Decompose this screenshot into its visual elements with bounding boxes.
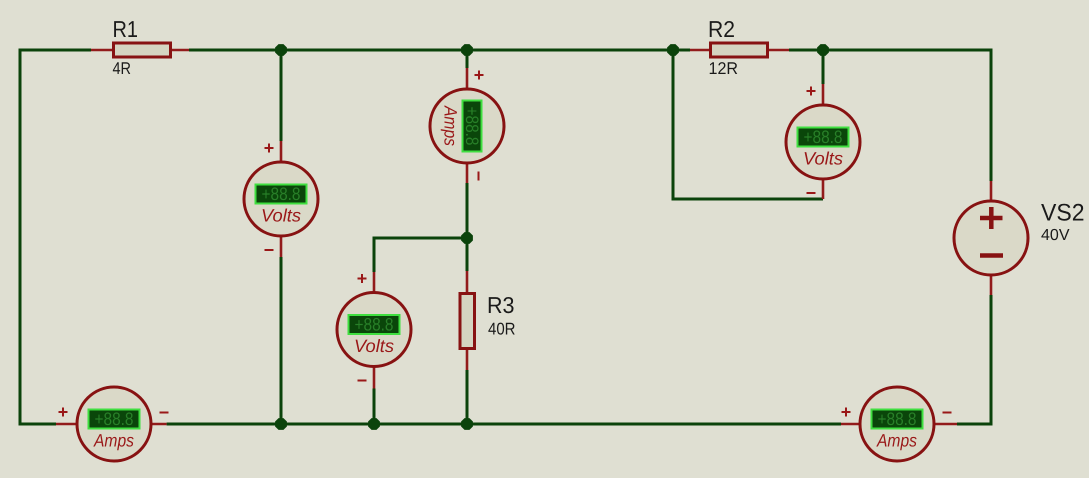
svg-text:R3: R3: [487, 292, 515, 318]
svg-text:Volts: Volts: [803, 149, 843, 169]
svg-text:40R: 40R: [488, 320, 516, 339]
svg-text:+88.8: +88.8: [462, 107, 482, 146]
svg-text:40V: 40V: [1041, 227, 1070, 244]
svg-text:Volts: Volts: [354, 336, 394, 356]
svg-text:4R: 4R: [113, 59, 132, 78]
svg-text:+88.8: +88.8: [804, 127, 843, 147]
svg-text:R1: R1: [113, 16, 139, 42]
svg-text:+88.8: +88.8: [95, 409, 134, 429]
svg-text:Amps: Amps: [876, 431, 917, 451]
svg-text:+88.8: +88.8: [355, 314, 394, 334]
svg-text:+88.8: +88.8: [262, 184, 301, 204]
svg-text:Volts: Volts: [261, 206, 301, 226]
svg-text:VS2: VS2: [1041, 200, 1085, 227]
svg-text:Amps: Amps: [441, 105, 461, 146]
svg-text:R2: R2: [708, 16, 735, 42]
svg-text:+88.8: +88.8: [878, 409, 917, 429]
svg-text:Amps: Amps: [93, 431, 134, 451]
svg-text:12R: 12R: [709, 59, 739, 78]
